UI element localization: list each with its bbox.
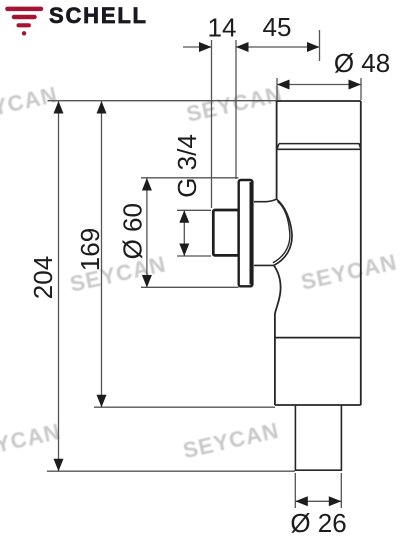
arrow Ø48 left xyxy=(277,80,290,90)
body left edge upper xyxy=(276,101,278,200)
bell top line xyxy=(254,199,276,202)
svg-text:204: 204 xyxy=(28,256,58,299)
extension line button top (G3/4) xyxy=(177,209,211,211)
extension line top (204/169) xyxy=(48,100,278,102)
svg-text:SCHELL: SCHELL xyxy=(49,3,148,28)
dim line 14 xyxy=(183,46,212,48)
extension line flange bottom (Ø60) xyxy=(141,286,239,288)
svg-text:169: 169 xyxy=(75,228,105,271)
svg-text:45: 45 xyxy=(263,12,292,42)
extension line pipe right (Ø26) xyxy=(340,473,342,508)
button (spindle) xyxy=(213,210,238,255)
dim line 169 xyxy=(101,102,103,408)
svg-text:SEYCAN: SEYCAN xyxy=(184,82,285,128)
arrow G3/4 down xyxy=(179,244,189,257)
arrow 45 right-pointing xyxy=(307,42,320,52)
arrow 45 left-pointing xyxy=(236,42,249,52)
logo dot xyxy=(22,31,26,35)
dim line Ø48 xyxy=(277,84,361,86)
svg-text:14: 14 xyxy=(208,13,237,43)
arrow Ø26 left xyxy=(295,496,308,506)
dim line G3/4 xyxy=(183,211,185,256)
bell outer arc xyxy=(274,199,292,265)
extension line pipe left (Ø26) xyxy=(294,473,296,508)
logo bar 1 xyxy=(5,7,43,12)
arrow 204 down xyxy=(54,459,64,472)
svg-text:Ø 26: Ø 26 xyxy=(290,508,346,538)
logo bar 2 xyxy=(12,15,37,19)
dim line 204 xyxy=(58,102,60,472)
logo bar 3 xyxy=(17,23,31,27)
svg-text:SEYCAN: SEYCAN xyxy=(0,82,60,128)
body right edge xyxy=(360,101,362,405)
arrowheads xyxy=(54,42,362,506)
arrow 169 down xyxy=(97,395,107,408)
svg-text:Ø 48: Ø 48 xyxy=(334,48,390,78)
svg-text:Ø 60: Ø 60 xyxy=(118,203,148,259)
arrow Ø60 up xyxy=(142,178,152,191)
extension line button bottom (G3/4) xyxy=(177,255,211,257)
arrow G3/4 up xyxy=(179,210,189,223)
svg-text:SEYCAN: SEYCAN xyxy=(0,419,63,465)
dim line Ø26 xyxy=(295,500,341,502)
arrow Ø60 down xyxy=(142,275,152,288)
flange plate xyxy=(239,180,253,286)
cap joint lower line xyxy=(277,148,361,150)
bell bottom line xyxy=(254,264,274,266)
arrow Ø48 right xyxy=(349,80,362,90)
extension line body top right (Ø48) xyxy=(360,78,362,100)
flange right thick edge xyxy=(249,182,252,285)
dim line Ø60 xyxy=(146,178,148,288)
body left S-curve below bell xyxy=(274,265,281,405)
bell inner arc xyxy=(273,201,290,262)
outlet pipe xyxy=(295,405,341,470)
arrow 14 right-pointing xyxy=(199,42,212,52)
extension line button face (14 left) xyxy=(211,40,213,208)
body seam line xyxy=(275,337,361,339)
cap joint upper line xyxy=(279,144,361,149)
arrow Ø26 right xyxy=(329,496,342,506)
arrow 204 up xyxy=(54,101,64,114)
extension line flange top (Ø60) xyxy=(141,177,239,179)
svg-text:SEYCAN: SEYCAN xyxy=(181,418,282,464)
extension line flange face (14 right / 45 left) xyxy=(235,40,237,179)
dim line 45 xyxy=(236,46,320,48)
top cap top edge xyxy=(277,100,361,102)
extension line pipe bottom (204) xyxy=(47,470,295,472)
svg-text:G 3/4: G 3/4 xyxy=(172,134,202,198)
svg-text:SEYCAN: SEYCAN xyxy=(299,249,400,295)
extension line body axis (45 right) xyxy=(319,30,321,61)
extension line body top left (Ø48) xyxy=(276,78,278,100)
extension line body bottom (169) xyxy=(94,406,275,408)
body bottom edge xyxy=(275,404,361,406)
arrow 169 up xyxy=(97,101,107,114)
